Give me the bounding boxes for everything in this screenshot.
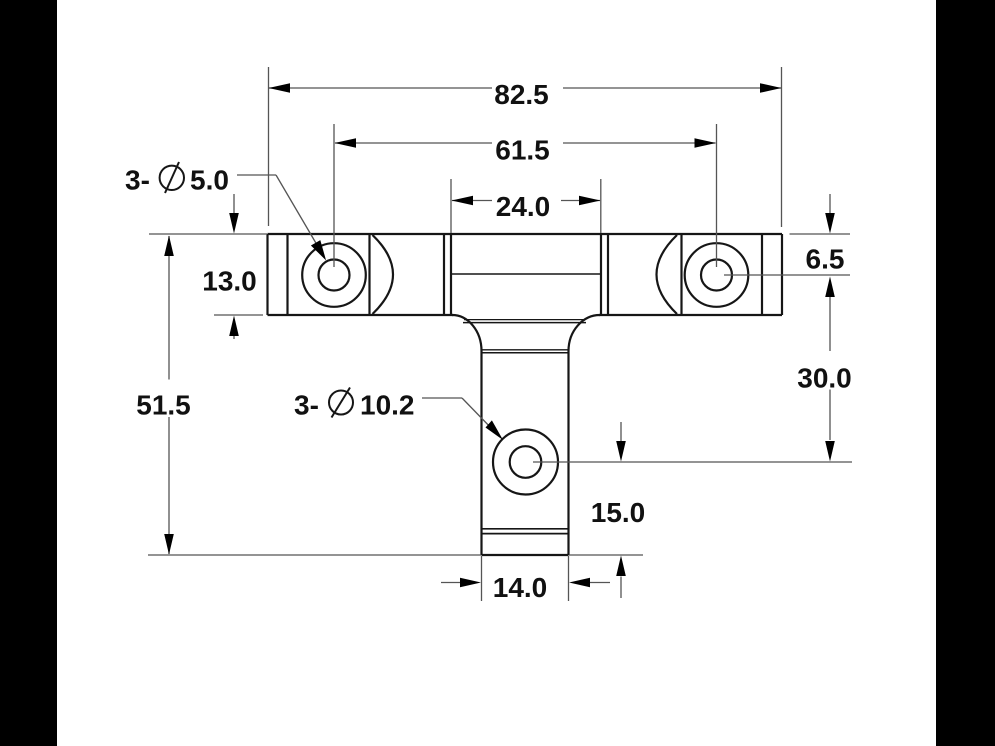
15.0 bottom arrow shaft bbox=[620, 577, 622, 599]
arrowhead 15.0 top (down) bbox=[616, 441, 626, 462]
dimension line 61.5 right segment bbox=[563, 142, 716, 144]
part: right fillet to stem bbox=[569, 315, 601, 351]
13.0 top reference line (bar top extended left) bbox=[149, 233, 267, 235]
dimension line 82.5 left segment bbox=[269, 87, 492, 89]
dimension line 82.5 right segment bbox=[563, 87, 781, 89]
51.5 dim line lower segment bbox=[168, 417, 170, 554]
centerline / extension 61.5 left (left hole axis) bbox=[333, 124, 335, 267]
part: center section right double line b bbox=[607, 234, 609, 315]
svg-text:3-: 3- bbox=[294, 390, 319, 421]
part: bar right end edge bbox=[781, 234, 783, 315]
extension line 82.5 right bbox=[781, 67, 783, 227]
13.0 bottom arrow shaft bbox=[233, 336, 235, 339]
arrowhead 13.0 bottom (up) bbox=[229, 316, 239, 337]
part: stem lower ring line b bbox=[482, 533, 569, 535]
arrowhead 15.0 bottom (up) bbox=[616, 556, 626, 577]
13.0 bottom reference line bbox=[214, 314, 263, 316]
arrowhead 24.0 right bbox=[579, 196, 601, 206]
51.5 dim line upper segment bbox=[168, 236, 170, 380]
leader arrowhead 5.0 (pointing to left hole) bbox=[311, 240, 326, 260]
arrowhead 30.0 bottom (down) bbox=[825, 441, 835, 462]
part: right boss vertical line bbox=[680, 234, 682, 315]
right hole inner circle bbox=[701, 260, 732, 291]
svg-text:24.0: 24.0 bbox=[496, 191, 551, 222]
part: stem lower ring line a bbox=[482, 528, 569, 530]
13.0 top arrow shaft bbox=[233, 194, 235, 214]
arrowhead 61.5 left bbox=[335, 138, 357, 148]
part: bar left end edge bbox=[266, 234, 268, 315]
svg-text:13.0: 13.0 bbox=[202, 266, 257, 297]
part: horizontal bar top edge bbox=[268, 233, 783, 235]
6.5 top arrow shaft bbox=[829, 194, 831, 214]
arrowhead 82.5 right bbox=[760, 83, 782, 93]
dia symbol for 10.2 bbox=[329, 388, 353, 418]
30.0 dim line upper segment bbox=[829, 297, 831, 351]
bottom hole horizontal centerline / 30.0-15.0 reference bbox=[533, 461, 852, 463]
left hole inner circle bbox=[319, 260, 350, 291]
part: left fillet to stem bbox=[452, 315, 482, 351]
leader arrowhead 10.2 (pointing to bottom hole) bbox=[486, 420, 504, 440]
dimension line 61.5 left segment bbox=[335, 142, 492, 144]
stem right extension below part bbox=[568, 556, 570, 601]
part: transition ring line upper a bbox=[464, 319, 585, 321]
stem left extension below part bbox=[481, 556, 483, 601]
part: transition ring line lower a bbox=[482, 349, 569, 351]
part: stem left edge bbox=[480, 351, 482, 555]
leader line for 10.2 label diagonal bbox=[462, 398, 495, 432]
left black pillar bbox=[0, 0, 57, 746]
arrowhead 13.0 top (down) bbox=[229, 213, 239, 234]
arrowhead 61.5 right bbox=[695, 138, 717, 148]
svg-text:6.5: 6.5 bbox=[806, 244, 845, 275]
part: center section left double line a bbox=[443, 234, 445, 315]
part: left end inner line bbox=[286, 234, 288, 315]
6.5 top reference line (bar top extended right) bbox=[790, 233, 851, 235]
svg-text:10.2: 10.2 bbox=[360, 390, 415, 421]
part: transition ring line lower b bbox=[482, 352, 569, 354]
leader line for 5.0 label diagonal bbox=[276, 175, 320, 250]
part: center section left double line b bbox=[450, 234, 452, 315]
arrowhead 51.5 top (up) bbox=[164, 236, 174, 257]
30.0 dim line lower segment bbox=[829, 390, 831, 441]
dimension line 24.0 right segment bbox=[561, 200, 600, 202]
svg-text:30.0: 30.0 bbox=[797, 363, 852, 394]
centerline / extension 61.5 right (right hole axis) bbox=[716, 124, 718, 267]
part: right end inner line bbox=[761, 234, 763, 315]
bottom reference line right of stem bbox=[569, 554, 643, 556]
15.0 top arrow shaft bbox=[620, 422, 622, 441]
14.0 right arrow shaft bbox=[590, 582, 610, 584]
14.0 left arrow shaft bbox=[441, 582, 461, 584]
arrowhead 6.5 top (down) bbox=[825, 213, 835, 234]
part: stem bottom edge bbox=[482, 554, 569, 556]
bottom hole inner circle bbox=[510, 446, 542, 478]
part: stem right edge bbox=[567, 351, 569, 555]
arrowhead 82.5 left bbox=[269, 83, 291, 93]
leader line for 10.2 label horizontal bbox=[422, 397, 462, 399]
extension line 24.0 right bbox=[600, 179, 602, 233]
part: right boss tangent arc bbox=[657, 235, 678, 314]
dimension line 24.0 left segment bbox=[452, 200, 492, 202]
dia symbol for 5.0 bbox=[160, 162, 184, 193]
bottom reference line (part bottom extended left) bbox=[148, 554, 481, 556]
part: center section right double line a bbox=[600, 234, 602, 315]
svg-text:51.5: 51.5 bbox=[136, 390, 191, 421]
arrowhead 14.0 right (left-pointing) bbox=[569, 578, 590, 588]
arrowhead 51.5 bottom (down) bbox=[164, 534, 174, 555]
svg-text:15.0: 15.0 bbox=[591, 497, 646, 528]
leader line for 5.0 label horizontal bbox=[237, 174, 276, 176]
part: bar bottom edge right segment bbox=[599, 314, 782, 316]
bottom hole outer circle bbox=[493, 430, 558, 495]
svg-text:3-: 3- bbox=[125, 165, 150, 196]
svg-text:14.0: 14.0 bbox=[493, 572, 548, 603]
left hole outer circle bbox=[302, 243, 366, 307]
right hole outer circle bbox=[685, 243, 749, 307]
arrowhead 6.5 bottom / 30.0 top (up) bbox=[825, 277, 835, 298]
part: left boss vertical line bbox=[368, 234, 370, 315]
part: bar bottom edge left segment bbox=[268, 314, 454, 316]
svg-text:5.0: 5.0 bbox=[190, 165, 229, 196]
right black pillar bbox=[936, 0, 995, 746]
part: left boss tangent arc bbox=[373, 235, 394, 314]
right hole horizontal centerline / 6.5-30.0 reference bbox=[724, 274, 850, 276]
arrowhead 14.0 left (right-pointing) bbox=[460, 578, 481, 588]
part: center section mid horizontal line bbox=[451, 273, 601, 275]
svg-text:82.5: 82.5 bbox=[494, 79, 549, 110]
svg-text:61.5: 61.5 bbox=[495, 135, 550, 166]
extension line 82.5 left bbox=[268, 67, 270, 226]
extension line 24.0 left bbox=[450, 179, 452, 233]
arrowhead 24.0 left bbox=[452, 196, 474, 206]
part: transition ring line upper b bbox=[463, 322, 586, 324]
